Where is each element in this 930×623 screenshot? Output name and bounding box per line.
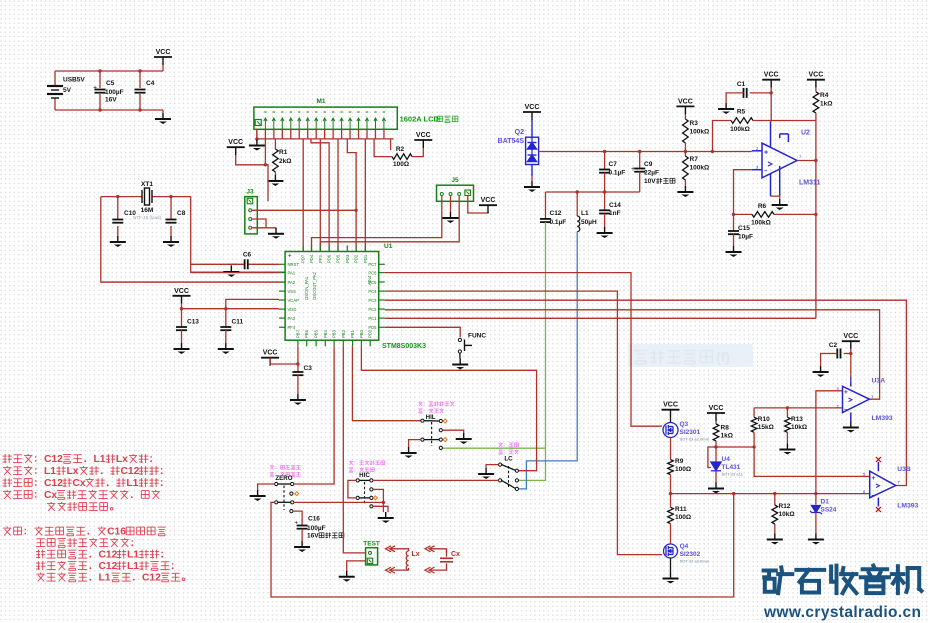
wire ZERO throw to C16 <box>293 511 302 525</box>
svg-text:M1: M1 <box>316 98 325 105</box>
svg-text:PC2: PC2 <box>368 307 377 312</box>
resistor R1 <box>274 139 276 149</box>
svg-text:L1: L1 <box>94 454 106 465</box>
connector M1 1602A LCD <box>254 107 397 129</box>
capacitor C10 <box>112 220 123 223</box>
ground U4 <box>715 471 717 483</box>
svg-text:PB1: PB1 <box>350 329 355 338</box>
svg-text:SS24: SS24 <box>821 507 837 514</box>
wire HIL pole2 to ground <box>409 440 421 447</box>
resistor R11 <box>670 494 672 508</box>
resistor R6 feedback <box>734 170 753 215</box>
svg-text:10kΩ: 10kΩ <box>791 424 807 431</box>
ground TEST <box>339 571 355 582</box>
capacitor C14 <box>604 192 606 210</box>
ground LC <box>478 468 494 479</box>
svg-text:PF3: PF3 <box>318 255 323 263</box>
ground C11 <box>218 343 234 354</box>
svg-text:Q4: Q4 <box>680 543 689 550</box>
svg-text:C11: C11 <box>232 319 244 326</box>
svg-text:C12: C12 <box>142 573 161 584</box>
svg-text:10µF: 10µF <box>738 234 753 241</box>
crystal XT1 <box>142 188 152 205</box>
svg-text:VCC: VCC <box>663 402 678 409</box>
svg-text:U1: U1 <box>384 243 393 250</box>
svg-text:1602A LCD: 1602A LCD <box>400 115 440 124</box>
wire ZERO throw to U1 <box>294 346 334 484</box>
svg-text:R7: R7 <box>690 156 699 163</box>
op-amp U2 LM311 <box>752 122 816 197</box>
svg-text:U4: U4 <box>722 456 731 463</box>
capacitor C15 <box>733 214 735 231</box>
svg-text:PD5: PD5 <box>368 325 377 330</box>
ground <box>163 236 179 247</box>
svg-text:TL431: TL431 <box>722 464 741 471</box>
resistor R12 <box>774 494 776 505</box>
svg-text:VCC: VCC <box>709 405 724 412</box>
resistor R10 <box>753 408 755 417</box>
wire bundle to U1 <box>302 139 304 252</box>
svg-text:SOT-23 a2.0mm: SOT-23 a2.0mm <box>680 437 710 442</box>
wire PC6 net to Q3 gate <box>385 273 662 427</box>
ground C6 <box>231 264 237 266</box>
svg-text:16V: 16V <box>105 97 117 104</box>
svg-text:PD7: PD7 <box>301 254 306 263</box>
diode Q2 BAT54S <box>526 120 539 176</box>
VCC U1 rail <box>173 288 191 304</box>
diode D1 SS24 <box>815 494 817 505</box>
svg-text:22µF: 22µF <box>644 170 659 177</box>
ground ZERO <box>250 490 266 501</box>
VCC R8 <box>707 405 725 421</box>
wire ZERO pole2 to bottom rail <box>271 494 734 597</box>
VCC R2 <box>414 132 432 148</box>
wire J3 pin2 to U1 <box>252 209 356 211</box>
ground R13 <box>779 444 795 455</box>
ground C16 <box>294 541 310 552</box>
capacitor C12 <box>545 192 547 219</box>
svg-text:+: + <box>764 150 768 157</box>
wire HIC left loop <box>348 480 356 498</box>
wire PC3 net to U3B output <box>385 300 907 485</box>
svg-text:L1: L1 <box>581 210 589 217</box>
svg-text:PB6: PB6 <box>304 329 309 338</box>
ground J3 <box>268 228 284 239</box>
svg-text:C12: C12 <box>44 478 63 489</box>
svg-text:R10: R10 <box>758 416 770 423</box>
svg-text:www.crystalradio.cn: www.crystalradio.cn <box>763 604 921 621</box>
svg-text:VCC: VCC <box>678 98 693 105</box>
svg-text:U2: U2 <box>801 130 810 137</box>
ground HIC <box>378 512 394 523</box>
svg-text:C12: C12 <box>121 466 140 477</box>
svg-text:16M: 16M <box>141 207 154 214</box>
svg-text:1kΩ: 1kΩ <box>721 433 733 440</box>
svg-text:VCAP: VCAP <box>288 298 300 303</box>
svg-text:0.1µF: 0.1µF <box>609 170 626 177</box>
svg-text:SI2301: SI2301 <box>680 429 701 436</box>
VCC J5 <box>479 197 497 213</box>
VCC R4 <box>807 72 825 88</box>
svg-text:PF4: PF4 <box>288 325 296 330</box>
svg-text:Lx: Lx <box>116 454 128 465</box>
ground R12 <box>767 534 783 545</box>
svg-text:VCC: VCC <box>228 139 243 146</box>
wire PC1 net to U2 output <box>385 317 816 319</box>
VCC R3 <box>676 98 694 114</box>
battery USB5V <box>47 86 63 98</box>
svg-text:PA2: PA2 <box>288 280 296 285</box>
svg-text:PD4: PD4 <box>309 254 314 263</box>
svg-text:C15: C15 <box>738 225 750 232</box>
VCC power <box>154 49 172 65</box>
svg-text:HIC: HIC <box>359 472 370 479</box>
ground Q4 <box>670 558 672 573</box>
capacitor C16 <box>297 526 308 529</box>
svg-text:NTF-16 (load): NTF-16 (load) <box>133 215 162 220</box>
ground C14 <box>597 227 613 238</box>
wire LC common to ground <box>486 465 499 468</box>
resistor R5 <box>713 121 732 152</box>
wire ZERO line to HIC area <box>294 501 384 503</box>
svg-text:C12: C12 <box>99 550 118 561</box>
svg-text:(f): (f) <box>716 349 730 365</box>
wire crystal loop <box>101 196 142 198</box>
inductor L1 <box>576 192 578 216</box>
wire HIC rail to LC <box>373 479 499 481</box>
svg-text:PC4: PC4 <box>368 289 377 294</box>
resistor R7 <box>684 152 686 157</box>
svg-text:Cx: Cx <box>44 490 57 501</box>
svg-text:PD1: PD1 <box>363 254 368 263</box>
svg-text:VCC: VCC <box>843 333 858 340</box>
svg-text:Cx: Cx <box>451 551 460 558</box>
ground M1 pin1 <box>249 140 265 151</box>
wire green C12 net <box>545 222 547 448</box>
VCC M1 pin2 + J3 pin1 <box>227 139 245 155</box>
svg-text:PB4: PB4 <box>323 329 328 338</box>
svg-text:Cx: Cx <box>73 478 86 489</box>
svg-text:Q2: Q2 <box>515 129 524 136</box>
wire J3 pins 3-4 to ground <box>252 219 266 228</box>
svg-text:STM8S003K3: STM8S003K3 <box>382 343 426 350</box>
ground C3 <box>290 394 306 405</box>
wire J5 pin2 to ground <box>450 196 452 212</box>
ground R7 <box>677 186 693 197</box>
svg-text:PC7: PC7 <box>368 262 377 267</box>
ground U3A <box>843 422 859 433</box>
wire J5 pin4 to VCC <box>468 196 488 213</box>
svg-text:PD5: PD5 <box>336 254 341 263</box>
svg-text:VCC: VCC <box>263 350 278 357</box>
wire HIL throw to ground <box>442 430 463 433</box>
svg-text:Lx: Lx <box>412 551 420 558</box>
wire junction rail <box>671 493 870 495</box>
svg-text:10kΩ: 10kΩ <box>779 511 795 518</box>
op-amp U3A LM393 <box>843 377 870 422</box>
svg-text:USB5V: USB5V <box>63 77 85 84</box>
svg-text:HIL: HIL <box>426 414 436 421</box>
svg-text:ZERO: ZERO <box>275 475 292 482</box>
svg-text:100Ω: 100Ω <box>675 466 691 473</box>
svg-text:PB5: PB5 <box>314 329 319 338</box>
resistor R2 <box>374 139 392 157</box>
svg-text:PA3: PA3 <box>288 316 296 321</box>
svg-text:C8: C8 <box>177 210 186 217</box>
svg-text:LM393: LM393 <box>872 415 893 422</box>
svg-text:R12: R12 <box>779 503 791 510</box>
svg-text:R11: R11 <box>675 506 687 513</box>
svg-text:PB3: PB3 <box>332 329 337 338</box>
ground C13 <box>174 343 190 354</box>
capacitor C6 <box>191 263 244 265</box>
ground HIL left <box>401 447 417 458</box>
svg-text:VCC: VCC <box>174 288 189 295</box>
svg-text:C12: C12 <box>44 454 63 465</box>
capacitor C13 <box>181 309 183 327</box>
svg-text:+: + <box>288 254 292 260</box>
svg-text:L1: L1 <box>99 573 111 584</box>
svg-text:C5: C5 <box>106 80 115 87</box>
svg-text:D1: D1 <box>821 499 830 506</box>
svg-text:C12: C12 <box>99 561 118 572</box>
wire U3A plus net <box>816 391 843 494</box>
svg-text:5V: 5V <box>63 87 72 94</box>
svg-text:50µH: 50µH <box>581 219 597 226</box>
svg-text:PB2: PB2 <box>341 329 346 338</box>
resistor R13 <box>786 408 788 417</box>
svg-text:BAT54S: BAT54S <box>498 138 525 145</box>
svg-text:100µF: 100µF <box>105 89 124 96</box>
svg-text:C3: C3 <box>304 365 313 372</box>
svg-text:PC6: PC6 <box>368 270 377 275</box>
svg-text:L1: L1 <box>44 466 56 477</box>
ground <box>110 236 126 247</box>
svg-text:Q3: Q3 <box>680 421 689 428</box>
svg-text:R1: R1 <box>279 149 288 156</box>
svg-text:OSCIN_PA1: OSCIN_PA1 <box>304 276 309 300</box>
svg-text:SOT-23 a11: SOT-23 a11 <box>722 472 744 477</box>
note text block <box>4 454 6 463</box>
resistor R4 <box>815 88 817 92</box>
svg-text:VDD: VDD <box>288 307 297 312</box>
svg-text:PB7: PB7 <box>295 329 300 338</box>
switch ZERO <box>270 465 274 467</box>
svg-text:VCC: VCC <box>156 49 171 56</box>
ground D1 <box>815 513 817 534</box>
svg-text:VCC: VCC <box>481 197 496 204</box>
svg-text:PD2: PD2 <box>368 329 373 338</box>
svg-text:+: + <box>93 85 97 92</box>
faint watermark band <box>628 344 753 367</box>
svg-text:2kΩ: 2kΩ <box>279 158 291 165</box>
capacitor C1 <box>750 92 772 94</box>
svg-text:R5: R5 <box>737 109 746 116</box>
transistor Q4 SI2302 <box>664 544 678 558</box>
svg-text:PC1: PC1 <box>368 316 377 321</box>
svg-text:100kΩ: 100kΩ <box>690 165 710 172</box>
svg-text:C9: C9 <box>644 161 653 168</box>
resistor R9 <box>670 438 672 460</box>
svg-text:AIN4: AIN4 <box>367 275 372 285</box>
wire TEST pin2 to ground <box>347 561 366 571</box>
svg-text:VCC: VCC <box>525 104 540 111</box>
svg-text:L1: L1 <box>127 561 139 572</box>
capacitor C5 <box>95 90 106 93</box>
wire crystal to PA1/PA2 done above ; U1 left power rail <box>191 272 279 274</box>
wire blue L1 net <box>519 232 578 489</box>
watermark logo <box>764 567 793 593</box>
ground J5 <box>443 212 459 223</box>
capacitor Cx external <box>425 546 435 552</box>
svg-text:OSCOUT_PA2: OSCOUT_PA2 <box>312 271 317 300</box>
svg-text:R2: R2 <box>396 146 405 153</box>
ground C15 <box>726 246 742 257</box>
svg-text:+: + <box>631 166 635 173</box>
svg-text:C2: C2 <box>829 342 838 349</box>
switch LC <box>499 442 503 444</box>
svg-text:1nF: 1nF <box>609 210 621 217</box>
wire J5 pin3 to U1 <box>320 196 459 252</box>
svg-text:PD6: PD6 <box>327 254 332 263</box>
wire top rail to U3A minus <box>754 407 842 409</box>
svg-text:16V: 16V <box>307 533 319 540</box>
svg-text:VCC: VCC <box>809 72 824 79</box>
svg-text:SI2302: SI2302 <box>680 551 701 558</box>
svg-text:C12: C12 <box>550 210 562 217</box>
svg-text:100Ω: 100Ω <box>393 161 409 168</box>
svg-text:100Ω: 100Ω <box>675 514 691 521</box>
wire PC5 to FUNC <box>385 327 460 337</box>
svg-text:R13: R13 <box>791 416 803 423</box>
wire R8 junction to R10 <box>716 446 754 448</box>
svg-text:J3: J3 <box>246 189 254 196</box>
svg-text:R3: R3 <box>690 120 699 127</box>
svg-text:C6: C6 <box>243 252 252 259</box>
svg-text:PB0: PB0 <box>359 329 364 338</box>
svg-text:PD3: PD3 <box>345 254 350 263</box>
wire HIC throw to ground <box>373 506 388 512</box>
svg-text:LM393: LM393 <box>897 503 918 510</box>
svg-text:0.1µF: 0.1µF <box>550 219 567 226</box>
wire U2 balance pins to ground <box>771 196 780 199</box>
svg-text:NRST: NRST <box>288 262 300 267</box>
VCC Q3 <box>662 402 680 418</box>
svg-text:R9: R9 <box>675 458 684 465</box>
ground HIL right <box>456 433 472 444</box>
svg-text:C10: C10 <box>124 210 136 217</box>
svg-text:VSS: VSS <box>288 289 297 294</box>
capacitor C2 <box>844 353 851 355</box>
capacitor C8 <box>166 220 177 223</box>
svg-text:R8: R8 <box>721 425 730 432</box>
svg-text:L1: L1 <box>126 478 138 489</box>
svg-text:TEST: TEST <box>363 541 380 548</box>
connector J5 <box>437 185 474 201</box>
svg-text:100kΩ: 100kΩ <box>751 220 771 227</box>
svg-text:C4: C4 <box>146 80 155 87</box>
inductor Lx external <box>386 546 396 552</box>
op U4 TL431 <box>708 447 716 468</box>
wire PC2 net to U3A output <box>385 310 880 399</box>
ground R1 <box>267 175 283 186</box>
svg-text:VCC: VCC <box>764 72 779 79</box>
wire power loop top-left <box>55 70 163 72</box>
wire J5 pin1 to U1 <box>312 196 442 252</box>
capacitor C7 <box>604 152 606 170</box>
svg-text:100µF: 100µF <box>307 525 326 532</box>
svg-text:PC3: PC3 <box>368 298 377 303</box>
svg-text:1kΩ: 1kΩ <box>820 101 832 108</box>
wire R10 bottom to U3B plus <box>754 447 870 476</box>
svg-text:C14: C14 <box>609 202 621 209</box>
ground U2 <box>772 199 788 210</box>
svg-text:L1: L1 <box>127 550 139 561</box>
svg-text:100kΩ: 100kΩ <box>690 129 710 136</box>
capacitor C3 <box>292 372 303 375</box>
svg-text:10V: 10V <box>644 178 656 185</box>
wire PB pin to LC switch <box>361 346 536 470</box>
wire HIC throw to ZERO line <box>373 489 384 512</box>
svg-text:+: + <box>295 521 299 527</box>
svg-text:R4: R4 <box>820 92 829 99</box>
svg-text:C7: C7 <box>609 161 618 168</box>
ground FUNC <box>452 359 468 370</box>
svg-text:+: + <box>872 475 876 482</box>
svg-text:U3A: U3A <box>872 378 886 385</box>
ground Q2 <box>531 176 533 181</box>
capacitor C11 <box>225 309 227 327</box>
wire U2 output to PC1 <box>815 161 817 319</box>
wire LC tank rail <box>546 191 640 193</box>
svg-text:U3B: U3B <box>897 466 911 473</box>
switch HIC <box>349 460 353 462</box>
no-connect marks U3B <box>876 457 881 512</box>
wire measure node <box>539 151 752 153</box>
resistor R8 <box>715 421 717 424</box>
wire ZERO pole1 to ground <box>258 484 275 490</box>
svg-text:C16: C16 <box>107 527 126 538</box>
ground C1 <box>718 103 734 114</box>
svg-text:C1: C1 <box>737 81 746 88</box>
svg-text:FUNC: FUNC <box>468 333 486 340</box>
ground C2 <box>813 366 829 377</box>
svg-text:PA1: PA1 <box>288 270 296 275</box>
svg-text:J5: J5 <box>451 177 459 184</box>
svg-text:C13: C13 <box>187 319 199 326</box>
switch HIL <box>418 401 422 403</box>
wire M1 ground rail <box>256 129 258 139</box>
svg-text:R6: R6 <box>758 203 767 210</box>
capacitor C4 <box>135 90 146 93</box>
svg-text:+: + <box>844 389 848 396</box>
svg-text:Lx: Lx <box>67 466 79 477</box>
svg-text:LM311: LM311 <box>799 180 821 187</box>
svg-text:VCC: VCC <box>416 132 431 139</box>
svg-text:15kΩ: 15kΩ <box>758 424 774 431</box>
svg-text:100kΩ: 100kΩ <box>730 126 750 133</box>
svg-text:C16: C16 <box>308 516 320 523</box>
wire PC4 net to Q4 gate <box>385 291 662 554</box>
capacitor C9 tantalum <box>639 152 641 169</box>
svg-text:PD2: PD2 <box>354 254 359 263</box>
transistor Q3 SI2301 <box>670 418 672 423</box>
VCC U2 <box>762 72 780 88</box>
connector J3 <box>245 197 257 234</box>
svg-text:XT1: XT1 <box>141 181 153 188</box>
svg-text:LC: LC <box>504 456 513 463</box>
resistor R3 <box>684 114 686 119</box>
